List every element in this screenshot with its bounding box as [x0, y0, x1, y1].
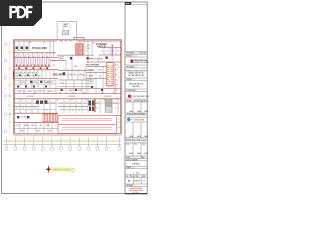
svg-text:B: B [118, 77, 119, 79]
svg-text:POLI: POLI [28, 91, 32, 93]
svg-text:APOTIK: APOTIK [97, 45, 107, 48]
svg-text:R.RW: R.RW [15, 103, 20, 105]
svg-text:R.RW: R.RW [45, 103, 50, 105]
svg-text:SKL: SKL [126, 176, 129, 178]
svg-text:R.RW: R.RW [51, 103, 56, 105]
svg-text:G2: G2 [106, 51, 108, 53]
svg-text:R.IPS: R.IPS [89, 76, 93, 78]
svg-text:3.0: 3.0 [78, 110, 80, 112]
svg-text:G1: G1 [101, 51, 103, 53]
svg-text:SULTAN IMANUDDIN: SULTAN IMANUDDIN [128, 74, 145, 77]
svg-text:PPTK: PPTK [126, 144, 130, 146]
svg-text:R.KB: R.KB [86, 48, 89, 50]
svg-text:LOKET: LOKET [77, 90, 82, 92]
svg-text:R.TUNGGU: R.TUNGGU [21, 117, 30, 119]
svg-text:R.RW: R.RW [77, 103, 82, 105]
svg-text:R.RW: R.RW [71, 103, 76, 105]
svg-text:S2: S2 [112, 59, 114, 61]
svg-text:K: K [44, 55, 45, 57]
svg-text:R.RW: R.RW [59, 103, 64, 105]
svg-text:DISETUJUI: DISETUJUI [142, 100, 149, 102]
svg-text:R.RW: R.RW [27, 103, 32, 105]
svg-text:2.5: 2.5 [84, 110, 86, 112]
svg-text:NO.LBR: NO.LBR [141, 53, 148, 55]
svg-text:R.PER: R.PER [33, 82, 39, 84]
svg-text:IPS CENTRE: IPS CENTRE [86, 65, 100, 67]
svg-text:2.8: 2.8 [46, 110, 48, 112]
svg-text:WS: WS [99, 76, 102, 78]
svg-text:1 : 100: 1 : 100 [133, 172, 140, 174]
svg-text:R.KB: R.KB [86, 45, 89, 47]
svg-text:G4: G4 [117, 51, 119, 53]
svg-text:K: K [30, 55, 31, 57]
svg-text:AR-01: AR-01 [134, 180, 141, 183]
svg-text:K: K [39, 55, 40, 57]
svg-text:3.2: 3.2 [115, 108, 117, 110]
svg-text:3.1: 3.1 [96, 108, 98, 110]
svg-text:JML: JML [143, 176, 146, 178]
svg-text:KALTENG: KALTENG [132, 85, 140, 88]
svg-text:KODE: KODE [126, 157, 130, 159]
svg-text:R.PER: R.PER [45, 82, 51, 84]
svg-text:POLIKLINIK: POLIKLINIK [32, 46, 47, 50]
svg-text:POLI: POLI [38, 91, 42, 93]
svg-text:K: K [16, 55, 17, 57]
svg-text:R.PER: R.PER [21, 82, 27, 84]
svg-text:2.4: 2.4 [72, 110, 74, 112]
svg-text:PPK: PPK [134, 144, 137, 146]
svg-text:KODE: KODE [131, 176, 135, 178]
svg-text:R.PNL: R.PNL [89, 70, 94, 72]
svg-text:K: K [35, 55, 36, 57]
svg-text:K: K [25, 55, 26, 57]
svg-text:PEMILIK: PEMILIK [126, 55, 133, 57]
svg-text:POLI: POLI [48, 91, 52, 93]
svg-text:LOKET: LOKET [58, 59, 63, 61]
svg-text:S1: S1 [101, 59, 103, 61]
svg-text:POS: POS [16, 125, 19, 127]
svg-text:DENAH LANTAI 1: DENAH LANTAI 1 [53, 169, 72, 172]
svg-text:R.RW: R.RW [65, 103, 70, 105]
svg-text:DENAH: DENAH [132, 162, 140, 165]
svg-text:HALL: HALL [64, 25, 69, 28]
svg-text:G3: G3 [112, 51, 114, 53]
svg-text:POLI: POLI [18, 91, 22, 93]
svg-text:K: K [21, 55, 22, 57]
svg-text:2.9: 2.9 [66, 110, 68, 112]
svg-text:2.3: 2.3 [60, 110, 62, 112]
svg-text:R.RW: R.RW [113, 103, 118, 105]
svg-text:R.RW: R.RW [21, 103, 26, 105]
svg-text:45: 45 [143, 180, 145, 182]
